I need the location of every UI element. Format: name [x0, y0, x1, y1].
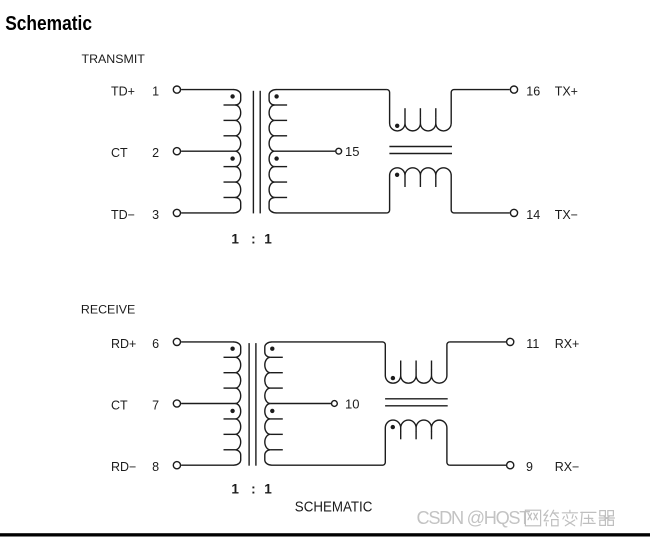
- transformer TX primary winding phase dot (CT side): [230, 156, 234, 160]
- transformer RX secondary phase dot (CT side): [270, 409, 274, 413]
- svg-text:TRANSMIT: TRANSMIT: [82, 52, 146, 66]
- transformer T1 (TX) primary winding return stubs: [224, 105, 236, 197]
- svg-text:RECEIVE: RECEIVE: [81, 303, 135, 317]
- common-mode choke L1 (TX) top winding stubs: [405, 108, 436, 117]
- transformer T1 (TX) secondary winding turns lower half: [269, 151, 276, 213]
- transformer RX secondary phase dot (top): [270, 347, 274, 351]
- transformer T1 (TX) secondary winding turns upper half: [269, 90, 276, 152]
- svg-text:7: 7: [152, 399, 159, 413]
- pin 15 terminal: [336, 148, 342, 154]
- common-mode choke L1 (TX) top winding: [387, 90, 454, 131]
- transformer T1 (TX) core: [253, 91, 260, 214]
- svg-text:1: 1: [264, 482, 272, 497]
- wire secondary top to choke: [276, 89, 387, 91]
- pin 3 terminal (TD-): [173, 209, 180, 216]
- common-mode choke L1 (TX) top winding phase dot: [395, 124, 399, 128]
- common-mode choke L1 (TX) bottom winding stubs: [405, 179, 436, 187]
- wire choke to pin 9: [450, 464, 506, 466]
- wire choke to pin 14: [454, 212, 510, 214]
- common-mode choke L1 (TX) core: [389, 147, 452, 154]
- svg-text:TD+: TD+: [111, 85, 135, 99]
- svg-text:Schematic: Schematic: [5, 12, 92, 35]
- svg-text:16: 16: [526, 85, 540, 99]
- svg-text::: :: [251, 482, 256, 497]
- svg-text:10: 10: [345, 396, 359, 411]
- svg-text:1: 1: [152, 85, 159, 99]
- transformer T2 (RX) secondary winding return stubs: [270, 357, 283, 449]
- label turns ratio 1:1 (RX): [231, 482, 272, 497]
- transformer T1 (TX) primary winding turns upper half: [234, 90, 241, 152]
- wire pin 7 to winding: [181, 403, 235, 405]
- transformer T2 (RX) primary winding return stubs: [224, 357, 236, 449]
- svg-text:14: 14: [526, 208, 540, 222]
- svg-text:TX−: TX−: [555, 208, 578, 222]
- common-mode choke L2 (RX) core: [385, 399, 448, 406]
- transformer T2 (RX) core: [249, 343, 256, 466]
- svg-text:9: 9: [526, 460, 533, 474]
- transformer T2 (RX) secondary winding turns lower half: [265, 404, 272, 466]
- svg-text:2: 2: [152, 146, 159, 160]
- transformer T1 (TX) primary winding turns lower half: [234, 151, 241, 213]
- transformer TX primary winding phase dot (pin 1 side): [230, 94, 234, 98]
- common-mode choke L2 (RX) bottom winding phase dot: [391, 425, 395, 429]
- svg-text:11: 11: [526, 337, 539, 351]
- transformer RX primary winding phase dot (CT side): [230, 409, 234, 413]
- wire pin 1 to winding: [181, 89, 234, 91]
- common-mode choke L1 (TX) bottom winding: [387, 168, 454, 213]
- common-mode choke L2 (RX) bottom winding: [383, 420, 450, 465]
- wire pin 6 to winding: [181, 341, 234, 343]
- svg-text:TD−: TD−: [111, 208, 135, 222]
- pin 16 terminal (TX+): [510, 86, 517, 93]
- svg-text:8: 8: [152, 460, 159, 474]
- pin 7 terminal (CT): [173, 400, 180, 407]
- svg-text:15: 15: [345, 144, 359, 159]
- common-mode choke L2 (RX) top winding: [383, 342, 450, 383]
- transformer TX secondary phase dot (top): [274, 94, 278, 98]
- svg-text:6: 6: [152, 337, 159, 351]
- wire choke to pin 16: [454, 89, 510, 91]
- pin 14 terminal (TX-): [510, 209, 517, 216]
- transformer T2 (RX) secondary winding turns upper half: [265, 342, 272, 404]
- transformer TX secondary phase dot (CT side): [274, 156, 278, 160]
- wire pin 3 to winding: [181, 212, 234, 214]
- pin 8 terminal (RD-): [173, 462, 180, 469]
- svg-text:RX−: RX−: [555, 460, 580, 474]
- wire secondary centre tap to pin 10: [270, 403, 331, 405]
- common-mode choke L2 (RX) top winding stubs: [401, 361, 432, 370]
- wire pin 2 to winding: [181, 150, 235, 152]
- svg-text:3: 3: [152, 208, 159, 222]
- svg-text:1: 1: [231, 232, 239, 247]
- wire secondary bottom to choke: [272, 464, 383, 466]
- wire choke to pin 11: [450, 341, 506, 343]
- pin 6 terminal (RD+): [173, 338, 180, 345]
- pin 9 terminal (RX-): [507, 462, 514, 469]
- svg-text:CT: CT: [111, 146, 128, 160]
- svg-text::: :: [251, 232, 256, 247]
- common-mode choke L2 (RX) top winding phase dot: [391, 376, 395, 380]
- svg-text:1: 1: [231, 482, 239, 497]
- transformer RX primary winding phase dot (pin 6 side): [230, 347, 234, 351]
- svg-text:TX+: TX+: [555, 85, 578, 99]
- watermark CJK glyphs: [525, 510, 614, 526]
- svg-text:RX+: RX+: [555, 337, 580, 351]
- transformer T2 (RX) primary winding turns upper half: [234, 342, 241, 404]
- wire secondary centre tap to pin 15: [275, 150, 336, 152]
- svg-text:CT: CT: [111, 399, 128, 413]
- svg-text:1: 1: [264, 232, 272, 247]
- transformer T1 (TX) secondary winding return stubs: [275, 105, 288, 197]
- wire secondary top to choke: [272, 341, 383, 343]
- wire pin 8 to winding: [181, 464, 234, 466]
- pin 10 terminal: [332, 401, 338, 407]
- pin 1 terminal (TD+): [173, 86, 180, 93]
- common-mode choke L2 (RX) bottom winding stubs: [401, 432, 432, 440]
- wire secondary bottom to choke: [276, 212, 387, 214]
- svg-text:SCHEMATIC: SCHEMATIC: [295, 499, 373, 515]
- common-mode choke L1 (TX) bottom winding phase dot: [395, 173, 399, 177]
- svg-text:RD+: RD+: [111, 337, 136, 351]
- transformer T2 (RX) primary winding turns lower half: [234, 404, 241, 466]
- svg-text:RD−: RD−: [111, 460, 136, 474]
- pin 2 terminal (CT): [173, 148, 180, 155]
- bottom border bar: [0, 533, 650, 536]
- label turns ratio 1:1 (TX): [231, 232, 272, 247]
- pin 11 terminal (RX+): [507, 338, 514, 345]
- svg-text:CSDN @HQST: CSDN @HQST: [417, 508, 531, 528]
